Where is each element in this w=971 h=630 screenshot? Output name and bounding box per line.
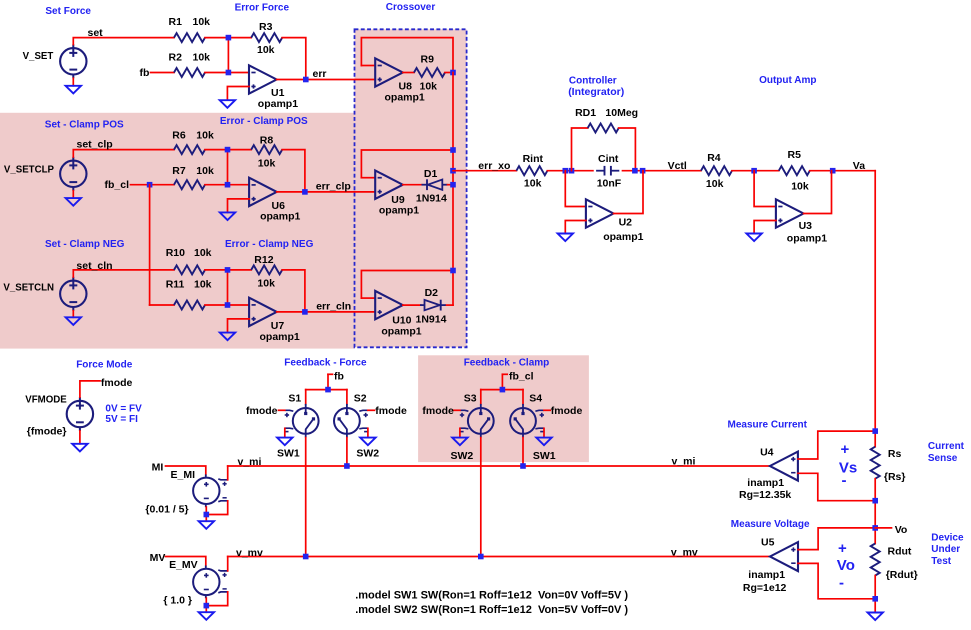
svg-text:10k: 10k <box>706 178 724 190</box>
resistor Rint <box>516 166 547 175</box>
svg-text:Force Mode: Force Mode <box>76 359 133 370</box>
wire net MI <box>166 466 206 475</box>
wire net fmode <box>80 381 100 397</box>
wire U2 output leg <box>614 171 644 214</box>
svg-text:(Integrator): (Integrator) <box>568 86 624 98</box>
svg-text:err_clp: err_clp <box>316 180 351 192</box>
ground at S4 control <box>536 438 551 446</box>
resistor RD1 <box>588 124 619 133</box>
svg-text:5V = FI: 5V = FI <box>105 414 138 425</box>
ground at U3 + input <box>746 234 761 242</box>
resistor R8 <box>251 145 282 154</box>
svg-text:Vo: Vo <box>837 557 855 574</box>
wire U3 + input to ground <box>754 221 776 234</box>
svg-text:R10: R10 <box>166 247 185 259</box>
wire S1 top <box>305 390 307 405</box>
wire S4 top <box>522 390 524 405</box>
resistor Rdut <box>871 544 880 576</box>
wire fb_cl vertical to R11 <box>149 185 151 305</box>
wire R7 to U6 inverting input <box>205 184 249 186</box>
svg-text:Error - Clamp NEG: Error - Clamp NEG <box>225 239 314 250</box>
svg-text:MI: MI <box>152 461 164 473</box>
svg-text:.model SW2 SW(Ron=1 Roff=1e12: .model SW2 SW(Ron=1 Roff=1e12 Von=5V Vof… <box>355 604 628 616</box>
svg-text:Rdut: Rdut <box>888 546 912 558</box>
svg-text:set: set <box>88 27 104 39</box>
svg-text:Rg=12.35k: Rg=12.35k <box>739 489 791 501</box>
wire S2 bottom to v_mi <box>346 438 348 466</box>
wire E_MI control - to ground node <box>206 501 227 515</box>
svg-text:Measure Current: Measure Current <box>728 420 808 431</box>
node junction R2/U1- <box>226 70 232 76</box>
svg-text:1N914: 1N914 <box>416 314 447 326</box>
svg-text:0V = FV: 0V = FV <box>105 403 142 414</box>
svg-text:inamp1: inamp1 <box>748 569 785 581</box>
wire S2 - to ground <box>367 428 369 437</box>
switch S2 <box>334 404 369 438</box>
wire S3 bottom to v_mv <box>480 438 482 557</box>
node err_xo junction <box>450 168 456 174</box>
op-amp U6 <box>249 178 277 206</box>
wire U8 output to R9 <box>403 72 414 74</box>
svg-text:Output Amp: Output Amp <box>759 75 816 86</box>
wire fb bus <box>306 389 347 391</box>
svg-text:S3: S3 <box>464 392 477 404</box>
svg-text:10k: 10k <box>258 158 276 170</box>
ground under VFMODE <box>72 444 87 452</box>
svg-text:S2: S2 <box>354 392 367 404</box>
svg-text:Set - Clamp NEG: Set - Clamp NEG <box>45 239 125 250</box>
svg-text:1N914: 1N914 <box>416 193 447 205</box>
svg-text:Rint: Rint <box>523 153 544 165</box>
wire U5 - input to Rdut bottom <box>798 563 875 598</box>
wire U4 - input to Rs bottom <box>798 473 875 500</box>
node junction fb_cl <box>147 182 153 188</box>
wire net err (U1 output to U8 +) <box>277 79 376 81</box>
svg-text:err_cln: err_cln <box>316 301 351 313</box>
svg-text:10k: 10k <box>194 247 212 259</box>
ground at U1 + input <box>220 100 235 108</box>
switch S3 <box>459 404 493 438</box>
svg-text:RD1: RD1 <box>575 107 596 119</box>
svg-text:Sense: Sense <box>928 453 958 464</box>
svg-text:err_xo: err_xo <box>478 160 510 172</box>
node err <box>303 77 309 83</box>
svg-text:opamp1: opamp1 <box>385 92 425 104</box>
svg-text:SW2: SW2 <box>451 450 474 462</box>
svg-text:V_SET: V_SET <box>23 51 54 62</box>
svg-text:inamp1: inamp1 <box>747 477 784 489</box>
wire net fb <box>151 72 175 74</box>
svg-text:Current: Current <box>928 441 965 452</box>
voltage source V_SETCLP symbol <box>60 157 86 191</box>
node junction U9 feedback <box>450 147 456 153</box>
wire U10 - input stub <box>361 297 375 299</box>
resistor R9 <box>414 68 445 77</box>
wire U7 + input to ground <box>228 319 250 333</box>
wire v_mi to E_MI control + <box>227 466 229 480</box>
svg-text:Device: Device <box>931 532 964 543</box>
svg-text:R4: R4 <box>707 152 721 164</box>
svg-text:10k: 10k <box>524 178 542 190</box>
wire D1 to crossover column <box>448 184 454 186</box>
svg-text:fb: fb <box>140 67 150 79</box>
wire S4 - to ground <box>543 428 545 437</box>
wire S3 - to ground <box>459 428 461 437</box>
svg-text:V_SETCLN: V_SETCLN <box>3 283 54 294</box>
node junction U2 output <box>640 168 646 174</box>
svg-text:10Meg: 10Meg <box>605 107 638 119</box>
svg-text:Feedback - Clamp: Feedback - Clamp <box>464 358 550 369</box>
ground under E_MI <box>199 521 214 529</box>
wire U3 output leg <box>804 171 832 214</box>
wire Rdut bottom to ground <box>874 576 876 613</box>
diode D2 1N914 <box>420 300 446 311</box>
svg-text:Va: Va <box>853 160 865 172</box>
wire U3 - input leg <box>754 171 776 207</box>
svg-text:opamp1: opamp1 <box>381 326 421 338</box>
wire fmode to S3 + <box>454 409 460 411</box>
svg-text:Vo: Vo <box>895 524 908 536</box>
resistor R5 <box>779 166 810 175</box>
svg-text:10k: 10k <box>791 181 809 193</box>
resistor R2 <box>174 68 205 77</box>
wire v_mv to E_MV control + <box>227 557 229 571</box>
ground at S2 control <box>360 438 375 446</box>
svg-text:-: - <box>839 575 844 592</box>
svg-text:U1: U1 <box>271 87 285 99</box>
op-amp U8 <box>375 58 403 86</box>
op-amp U7 <box>249 298 277 326</box>
svg-text:R1: R1 <box>169 16 183 28</box>
wire S3 top <box>480 390 482 405</box>
wire V_SET to ground <box>72 78 74 86</box>
svg-text:v_mv: v_mv <box>671 546 698 558</box>
wire E_MI bottom to ground <box>205 507 207 521</box>
wire V_SETCLN to ground <box>72 311 74 318</box>
svg-text:V_SETCLP: V_SETCLP <box>4 164 55 175</box>
node Rs bottom <box>872 498 878 504</box>
op-amp U10 <box>375 291 403 319</box>
svg-text:U2: U2 <box>619 217 633 229</box>
node err_clp <box>302 189 308 195</box>
voltage source V_SET symbol <box>60 44 86 78</box>
op-amp U2 <box>586 199 614 227</box>
svg-text:opamp1: opamp1 <box>260 211 300 223</box>
svg-text:R2: R2 <box>169 51 183 63</box>
svg-text:D1: D1 <box>424 168 438 180</box>
wire U1 + input to ground <box>227 87 249 101</box>
svg-text:S1: S1 <box>288 392 301 404</box>
wire net v_mi <box>228 465 770 467</box>
op-amp U3 <box>776 199 804 227</box>
svg-text:R3: R3 <box>259 21 273 33</box>
svg-text:Vctl: Vctl <box>668 160 687 172</box>
resistor R1 <box>174 33 205 42</box>
wire U2 - input leg <box>565 171 586 207</box>
wire R1 to R3 <box>205 37 251 39</box>
node fb_cl switches <box>500 387 506 393</box>
ground under V_SETCLP <box>66 198 81 206</box>
wire RD1 left leg <box>572 128 588 171</box>
wire junction column R10/R11 <box>227 270 229 305</box>
wire net err_cln (U7 output to U10 +) <box>277 311 376 313</box>
node Vo <box>872 525 878 531</box>
wire U9 feedback loop <box>361 150 453 178</box>
svg-text:v_mi: v_mi <box>238 456 262 468</box>
wire fb stub <box>327 374 329 389</box>
wire Rs bottom to Rdut top <box>874 479 876 544</box>
svg-text:Error - Clamp POS: Error - Clamp POS <box>220 116 308 127</box>
svg-text:opamp1: opamp1 <box>260 331 300 343</box>
wire U6 + input to ground <box>228 199 250 213</box>
svg-text:SW1: SW1 <box>533 450 556 462</box>
wire U10 output to D2 <box>403 304 421 306</box>
wire R9 to crossover column <box>445 72 453 74</box>
ground under V_SETCLN <box>66 317 81 325</box>
svg-text:{0.01 / 5}: {0.01 / 5} <box>145 504 188 516</box>
node Va <box>830 168 836 174</box>
node junction R6-R8 <box>225 147 231 153</box>
wire S4 bottom to v_mi <box>522 438 524 466</box>
svg-text:10k: 10k <box>193 16 211 28</box>
svg-text:fmode: fmode <box>246 405 278 417</box>
wire net Vctl <box>623 170 702 172</box>
wire R11 to U7 inverting input <box>205 304 249 306</box>
ground at S1 control <box>277 438 292 446</box>
svg-text:10k: 10k <box>193 51 211 63</box>
svg-text:SW2: SW2 <box>356 447 379 459</box>
ground at S3 control <box>452 438 467 446</box>
instrumentation amp U5 <box>770 542 798 571</box>
ground under V_SET <box>66 86 81 94</box>
node junction S4/v_mi <box>520 463 526 469</box>
svg-text:+: + <box>838 540 847 557</box>
wire S2 top <box>346 390 348 405</box>
svg-text:fmode: fmode <box>101 377 133 389</box>
svg-text:U3: U3 <box>799 220 813 232</box>
diode D1 1N914 <box>422 179 448 190</box>
svg-text:opamp1: opamp1 <box>379 205 419 217</box>
wire net fb_cl <box>131 184 175 186</box>
svg-text:.model SW1 SW(Ron=1 Roff=1e12: .model SW1 SW(Ron=1 Roff=1e12 Von=0V Vof… <box>355 590 628 602</box>
svg-text:D2: D2 <box>425 287 439 299</box>
resistor R12 <box>251 265 282 274</box>
svg-text:opamp1: opamp1 <box>258 98 298 110</box>
resistor R11 <box>174 301 205 310</box>
svg-text:fb_cl: fb_cl <box>509 370 534 382</box>
voltage source V_SETCLN symbol <box>60 277 86 311</box>
svg-text:Feedback - Force: Feedback - Force <box>284 358 367 369</box>
wire U10 feedback loop <box>361 271 453 299</box>
wire net Va <box>810 170 875 172</box>
svg-text:Measure Voltage: Measure Voltage <box>731 519 810 530</box>
svg-text:set_cln: set_cln <box>76 260 112 272</box>
node junction R10-R12 <box>225 267 231 273</box>
svg-text:R6: R6 <box>172 130 186 142</box>
node junction R11/U7- <box>225 302 231 308</box>
svg-text:fb: fb <box>334 370 344 382</box>
wire D2 to crossover column <box>447 304 454 306</box>
wire R10 to R12 <box>205 269 251 271</box>
node Rs top <box>872 428 878 434</box>
wire VFMODE to ground <box>79 431 81 444</box>
wire V_SETCLP to ground <box>72 191 74 198</box>
svg-text:fmode: fmode <box>375 405 407 417</box>
wire fb_cl stub <box>501 374 503 389</box>
wire Vo label stub <box>875 527 891 529</box>
switch S1 <box>284 404 319 438</box>
highlight region Feedback - Clamp (pink) <box>418 355 589 462</box>
wire net v_mv <box>228 556 770 558</box>
wire Rint to Cint <box>547 170 593 172</box>
node junction S3/v_mv <box>478 554 484 560</box>
node junction S1/v_mv <box>303 554 309 560</box>
svg-text:VFMODE: VFMODE <box>25 395 67 406</box>
wire fb_cl bus <box>481 389 523 391</box>
ground under E_MV <box>199 612 214 620</box>
wire U9 output to D1 <box>403 184 422 186</box>
wire S1 - to ground <box>284 428 286 437</box>
svg-text:10k: 10k <box>194 279 212 291</box>
node junction D1 <box>450 182 456 188</box>
node junction R9 output <box>450 70 456 76</box>
svg-text:-: - <box>842 472 847 489</box>
svg-text:10k: 10k <box>257 277 275 289</box>
dependent source E_MI <box>193 474 228 507</box>
wire fb_cl into R11 <box>150 304 174 306</box>
crossover box (pink fill, blue dashed border) <box>355 29 467 347</box>
svg-text:fmode: fmode <box>422 405 454 417</box>
svg-text:10k: 10k <box>196 130 214 142</box>
wire R2 to U1 inverting input <box>205 72 249 74</box>
svg-text:E_MV: E_MV <box>169 559 198 571</box>
svg-text:Under: Under <box>931 544 960 555</box>
svg-text:10k: 10k <box>257 44 275 56</box>
resistor R10 <box>174 265 205 274</box>
ground under Rdut <box>868 613 883 621</box>
svg-text:err: err <box>313 68 327 80</box>
node junction U2- tap <box>563 168 569 174</box>
svg-text:{Rdut}: {Rdut} <box>886 569 918 581</box>
svg-text:R11: R11 <box>166 279 185 291</box>
resistor Rs <box>871 447 880 479</box>
svg-text:v_mi: v_mi <box>672 456 696 468</box>
resistor R3 <box>251 33 282 42</box>
svg-text:fb_cl: fb_cl <box>105 179 130 191</box>
svg-text:v_mv: v_mv <box>236 547 263 559</box>
svg-text:S4: S4 <box>529 392 542 404</box>
wire R6 to R8 <box>205 149 251 151</box>
node E_MI ground junction <box>204 512 210 518</box>
svg-text:{fmode}: {fmode} <box>27 426 67 438</box>
ground at U2 + input <box>558 234 573 242</box>
wire fmode to S1 + <box>279 409 285 411</box>
wire net MV <box>166 557 206 566</box>
svg-text:U4: U4 <box>760 447 774 459</box>
node junction R7/U6- <box>225 182 231 188</box>
wire fb_cl label tick <box>502 373 507 375</box>
ground at U6 + input <box>220 212 235 220</box>
wire net err_clp (U6 output to U9 +) <box>277 191 376 193</box>
op-amp U9 <box>375 171 403 199</box>
op-amp U1 <box>249 65 277 93</box>
svg-text:Cint: Cint <box>598 153 619 165</box>
svg-text:SW1: SW1 <box>277 447 300 459</box>
wire crossover output column <box>452 73 454 306</box>
node junction S2/v_mi <box>344 463 350 469</box>
wire U9 - input stub <box>361 177 375 179</box>
wire U5 + input to Vo node <box>798 528 875 550</box>
svg-text:10k: 10k <box>196 165 214 177</box>
voltage source VFMODE symbol <box>67 397 93 431</box>
svg-text:+: + <box>841 441 850 458</box>
wire U2 + input to ground <box>565 221 586 234</box>
svg-text:set_clp: set_clp <box>77 139 113 151</box>
resistor R6 <box>174 145 205 154</box>
svg-text:Error Force: Error Force <box>235 3 290 14</box>
svg-text:Rg=1e12: Rg=1e12 <box>743 582 787 594</box>
wire fb label tick <box>328 373 333 375</box>
svg-text:Crossover: Crossover <box>386 2 436 13</box>
dependent source E_MV <box>193 566 228 599</box>
node junction R4-R5 <box>751 168 757 174</box>
capacitor Cint <box>596 166 619 176</box>
node E_MV ground junction <box>204 603 210 609</box>
highlight region Set/Error Clamp (pink) <box>0 113 355 349</box>
svg-text:opamp1: opamp1 <box>603 231 643 243</box>
svg-text:R7: R7 <box>172 165 186 177</box>
wire net set_clp <box>73 150 174 157</box>
wire net err_xo <box>453 170 516 172</box>
svg-text:MV: MV <box>150 552 166 564</box>
wire E_MV bottom to ground <box>205 598 207 612</box>
wire U8 - input stub <box>361 65 375 67</box>
resistor R7 <box>174 180 205 189</box>
wire net set_cln <box>73 270 174 277</box>
ground at U7 + input <box>220 333 235 341</box>
wire junction column R6/R7 <box>227 150 229 185</box>
node junction RD1 right <box>632 168 638 174</box>
svg-text:Test: Test <box>931 556 951 567</box>
svg-text:Set - Clamp POS: Set - Clamp POS <box>45 120 124 131</box>
svg-text:E_MI: E_MI <box>171 469 196 481</box>
svg-text:R5: R5 <box>788 149 802 161</box>
wire R3 to err node <box>282 38 306 80</box>
wire R8 to err_clp node <box>282 150 305 192</box>
wire RD1 right leg <box>619 128 636 171</box>
wire R12 to err_cln node <box>282 270 305 312</box>
svg-text:R9: R9 <box>421 54 435 66</box>
wire fmode to S2 + <box>368 409 375 411</box>
svg-text:fmode: fmode <box>551 405 583 417</box>
svg-text:R12: R12 <box>254 254 273 266</box>
svg-text:R8: R8 <box>260 134 274 146</box>
svg-text:Set Force: Set Force <box>45 6 91 17</box>
switch S4 <box>510 404 544 438</box>
wire net set <box>73 38 174 45</box>
node err_cln <box>302 309 308 315</box>
wire U4 + input to Rs top <box>798 431 875 459</box>
svg-text:10nF: 10nF <box>597 178 622 190</box>
node junction U10 feedback <box>450 268 456 274</box>
wire U8 feedback loop <box>361 38 453 73</box>
wire fmode to S4 + <box>544 409 550 411</box>
wire junction column R1/R2 <box>227 38 229 73</box>
wire S1 bottom to v_mv <box>305 438 307 557</box>
instrumentation amp U4 <box>770 452 798 481</box>
svg-text:opamp1: opamp1 <box>787 233 827 245</box>
wire E_MV control - to ground node <box>206 592 227 606</box>
